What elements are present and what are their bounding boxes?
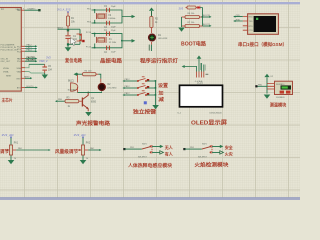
svg-text:独立按键: 独立按键 <box>133 107 157 115</box>
svg-text:VDA: VDA <box>16 67 21 70</box>
svg-text:SW1: SW1 <box>142 144 147 146</box>
svg-text:LED-GRN: LED-GRN <box>158 38 168 40</box>
svg-text:减: 减 <box>158 96 164 103</box>
svg-text:晶振电路: 晶振电路 <box>100 58 123 65</box>
svg-text:PA9TXD: PA9TXD <box>27 56 36 59</box>
svg-text:BOOT0: BOOT0 <box>27 86 35 88</box>
svg-text:BOOT电路: BOOT电路 <box>181 41 207 48</box>
svg-text:PB12: PB12 <box>125 79 131 81</box>
svg-text:PA10RX: PA10RX <box>27 59 36 62</box>
svg-text:有人: 有人 <box>165 150 174 156</box>
svg-text:无人: 无人 <box>164 144 174 150</box>
svg-text:程序运行指示灯: 程序运行指示灯 <box>139 58 178 65</box>
svg-text:PB14: PB14 <box>27 49 33 51</box>
svg-text:OSC_OUT: OSC_OUT <box>1 61 11 63</box>
svg-text:NRST: NRST <box>24 77 30 79</box>
svg-text:火灾: 火灾 <box>225 150 233 156</box>
svg-text:主芯片: 主芯片 <box>2 96 13 102</box>
svg-text:级调节: 级调节 <box>0 148 9 155</box>
svg-text:TXD: TXD <box>236 15 241 17</box>
svg-text:TXD: TXD <box>249 21 254 23</box>
svg-text:3V3: 3V3 <box>179 6 184 10</box>
svg-text:22pF: 22pF <box>111 51 116 53</box>
svg-text:NRST: NRST <box>57 27 64 29</box>
svg-text:LED-RED: LED-RED <box>108 88 118 90</box>
svg-text:RV2: RV2 <box>86 142 91 144</box>
svg-text:RV1: RV1 <box>14 142 19 144</box>
svg-text:20pF: 20pF <box>111 27 116 29</box>
svg-text:RXD: RXD <box>249 17 254 19</box>
svg-text:22pF: 22pF <box>111 30 116 32</box>
svg-text:<LED128x64>: <LED128x64> <box>209 112 223 115</box>
svg-text:PC15: PC15 <box>86 46 92 48</box>
svg-text:OLED显示屏: OLED显示屏 <box>191 118 228 126</box>
svg-text:VSA: VSA <box>17 71 22 74</box>
svg-text:安全: 安全 <box>225 144 234 150</box>
svg-text:LCD1: LCD1 <box>197 83 204 85</box>
svg-text:R4 100: R4 100 <box>85 71 93 73</box>
svg-text:RXD: RXD <box>236 19 241 21</box>
svg-text:串口1接口（模拟GSM）: 串口1接口（模拟GSM） <box>238 41 287 48</box>
svg-text:3V3_AD: 3V3_AD <box>74 133 86 137</box>
svg-text:风量级调节: 风量级调节 <box>55 148 78 155</box>
svg-text:20pF: 20pF <box>111 6 116 8</box>
svg-text:3V3_A_SYS: 3V3_A_SYS <box>57 8 71 12</box>
svg-text:3V3: 3V3 <box>46 56 51 60</box>
svg-text:USART1: USART1 <box>28 7 37 10</box>
svg-text:R7 10k: R7 10k <box>188 22 196 24</box>
svg-text:32.768k: 32.768k <box>109 42 117 44</box>
svg-text:3V3_AD: 3V3_AD <box>2 133 14 137</box>
svg-text:CTS: CTS <box>249 30 254 32</box>
svg-text:复位电路: 复位电路 <box>64 57 82 64</box>
svg-text:PC14: PC14 <box>86 32 92 34</box>
svg-text:设置: 设置 <box>158 82 168 89</box>
svg-text:BUZZER: BUZZER <box>68 90 76 92</box>
svg-text:R6 10k: R6 10k <box>188 13 196 15</box>
svg-text:VSSA: VSSA <box>3 71 9 74</box>
svg-text:声光报警电路: 声光报警电路 <box>75 120 111 127</box>
svg-text:测温模块: 测温模块 <box>270 102 287 109</box>
svg-text:8050: 8050 <box>91 102 97 104</box>
svg-text:DS18B20: DS18B20 <box>276 97 285 99</box>
svg-text:NRST: NRST <box>6 76 12 78</box>
svg-text:火焰检测模块: 火焰检测模块 <box>194 162 229 169</box>
svg-text:RTS: RTS <box>249 26 254 28</box>
svg-text:SW-SPDT: SW-SPDT <box>138 157 148 159</box>
svg-text:8.0MHz: 8.0MHz <box>108 18 115 20</box>
svg-text:人体热释电感应模块: 人体热释电感应模块 <box>127 162 172 169</box>
svg-text:加: 加 <box>157 89 164 96</box>
svg-text:VDDA: VDDA <box>3 67 9 70</box>
